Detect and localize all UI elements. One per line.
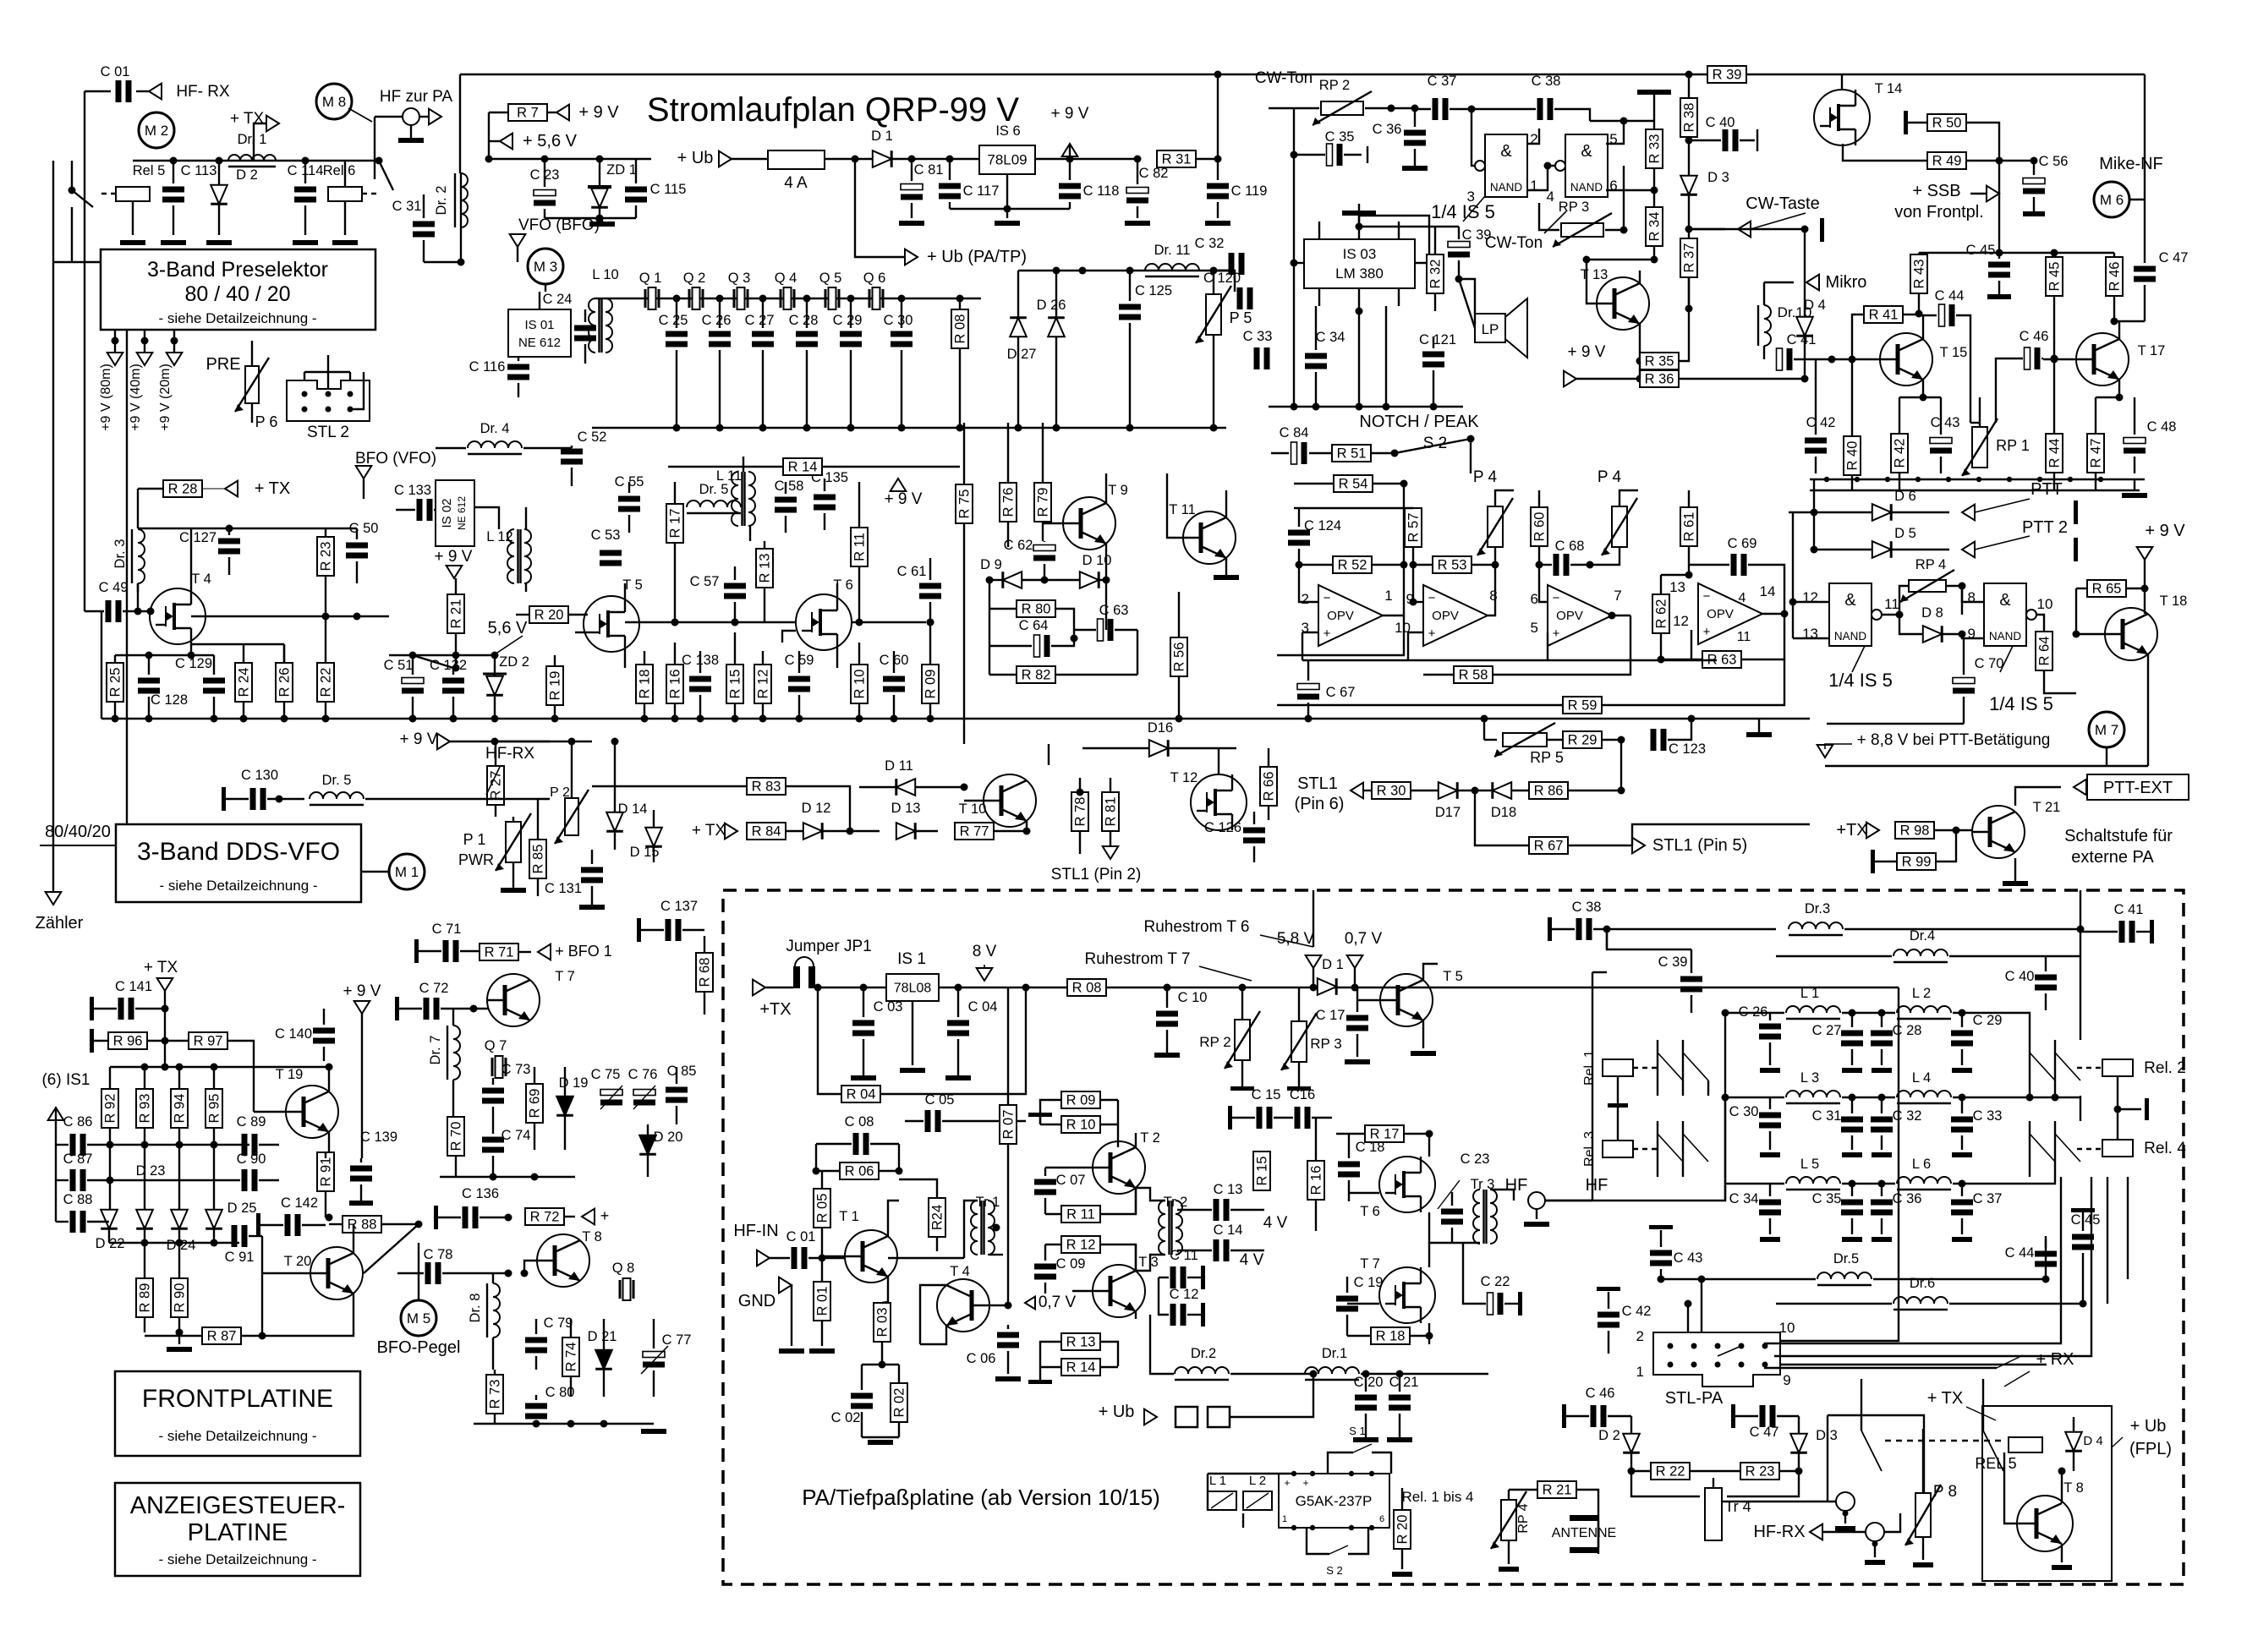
resistor R 02	[891, 1383, 907, 1422]
inductor Dr. 7	[453, 1026, 460, 1080]
resistor R 03	[874, 1303, 891, 1342]
ground rel2	[2145, 1098, 2149, 1120]
transistor T 9	[1063, 497, 1115, 550]
meter M 8	[316, 84, 352, 119]
svg-text:R 10: R 10	[852, 670, 868, 699]
svg-text:R 06: R 06	[845, 1164, 874, 1179]
resistor R 30	[1372, 782, 1411, 799]
resistor R 26	[276, 663, 293, 702]
svg-text:+ TX: + TX	[692, 822, 726, 840]
svg-text:C 20: C 20	[1354, 1375, 1384, 1390]
ic IS 1 78L08	[886, 974, 939, 1001]
transistor T 10	[984, 774, 1036, 827]
svg-text:C 47: C 47	[1750, 1425, 1779, 1440]
capacitor C 22	[1488, 1293, 1493, 1315]
svg-text:C 86: C 86	[63, 1114, 93, 1130]
capacitor C 113	[162, 187, 184, 193]
svg-text:6: 6	[1379, 1514, 1384, 1524]
resistor R 12 if	[754, 665, 771, 703]
capacitor C 57	[724, 583, 746, 589]
svg-text:C 03: C 03	[874, 999, 903, 1015]
svg-text:C 51: C 51	[384, 658, 414, 673]
svg-text:M 8: M 8	[322, 94, 346, 110]
svg-text:C 118: C 118	[1083, 183, 1120, 199]
capacitor C 67	[1297, 684, 1319, 690]
svg-text:C 117: C 117	[963, 183, 1000, 199]
svg-text:D 26: D 26	[1037, 298, 1066, 313]
svg-text:R 69: R 69	[528, 1089, 543, 1119]
svg-text:R 32: R 32	[1428, 260, 1444, 289]
resistor R 60	[1531, 507, 1548, 546]
svg-text:- siehe Detailzeichnung -: - siehe Detailzeichnung -	[158, 1428, 316, 1444]
capacitor C 46 mic	[2025, 347, 2031, 369]
svg-text:ZD 2: ZD 2	[499, 654, 529, 670]
svg-text:D 25: D 25	[227, 1201, 257, 1216]
transformer L 11	[732, 472, 738, 526]
svg-text:1/4 IS 5: 1/4 IS 5	[1989, 693, 2053, 714]
signal +9V r7	[547, 112, 556, 113]
transistor T 5 pa	[1380, 974, 1433, 1026]
capacitor C 115	[625, 187, 647, 193]
svg-text:R 16: R 16	[1309, 1166, 1324, 1195]
svg-text:R 14: R 14	[1066, 1360, 1096, 1376]
crystal Q 4	[780, 289, 782, 308]
svg-text:STL 2: STL 2	[307, 424, 349, 441]
svg-text:C 72: C 72	[419, 981, 449, 996]
relay Rel. 4	[2102, 1140, 2133, 1157]
svg-text:C 33: C 33	[1973, 1108, 2003, 1124]
svg-text:PLATINE: PLATINE	[188, 1519, 288, 1546]
capacitor C 38 lpf	[1576, 918, 1582, 940]
wire lpf feeds	[1592, 972, 1593, 1201]
svg-text:C 76: C 76	[628, 1067, 658, 1082]
transistor T 7 fp	[487, 974, 540, 1026]
svg-text:R 47: R 47	[2089, 439, 2104, 468]
svg-text:Dr.1: Dr.1	[1322, 1346, 1347, 1361]
ground t21	[2014, 858, 2016, 881]
svg-text:5,8 V: 5,8 V	[1277, 930, 1315, 948]
svg-text:Rel. 1: Rel. 1	[1582, 1050, 1597, 1086]
transformer Tr 3	[1473, 1190, 1480, 1244]
diode D 9	[1003, 572, 1022, 588]
wire to C31	[379, 161, 393, 190]
wire stlpa pin9 net	[1774, 1177, 2091, 1356]
svg-text:C 07: C 07	[1056, 1173, 1086, 1188]
svg-text:R 09: R 09	[1066, 1093, 1096, 1108]
wire lm380 out	[1359, 216, 1429, 263]
speaker LP	[1475, 314, 1505, 342]
capacitor C 18	[1338, 1162, 1360, 1168]
svg-text:T 5: T 5	[1443, 969, 1463, 984]
capacitor C 06	[997, 1332, 1019, 1338]
resistor R 01	[814, 1282, 830, 1321]
svg-text:R 59: R 59	[1568, 698, 1598, 714]
capacitor C 138	[689, 676, 711, 682]
resistor R 79	[1034, 483, 1051, 522]
svg-text:S 2: S 2	[1326, 1564, 1343, 1577]
svg-text:C 30: C 30	[884, 313, 913, 328]
capacitor C 32 lpf	[1871, 1117, 1893, 1123]
ground fp	[178, 1332, 180, 1344]
potentiometer P 5	[1206, 294, 1221, 335]
svg-text:C 32: C 32	[1893, 1108, 1922, 1124]
svg-text:RP 4: RP 4	[1915, 557, 1946, 572]
wire rel5 dashed link	[1885, 1440, 2006, 1441]
capacitor C 36 lpf	[1871, 1200, 1893, 1206]
inductor Dr.3 lpf	[1789, 922, 1843, 929]
wire mic bus	[1919, 252, 2114, 254]
resistor R 35	[1640, 353, 1679, 369]
crystal Q 6	[869, 289, 871, 308]
svg-text:Tr 2: Tr 2	[1164, 1195, 1188, 1210]
svg-text:C 81: C 81	[914, 162, 944, 178]
capacitor C 11	[1170, 1266, 1176, 1288]
signal PTT 2	[1962, 542, 1975, 558]
resistor R 54	[1334, 475, 1373, 492]
svg-text:+ 9 V: + 9 V	[400, 730, 438, 748]
svg-text:80/40/20: 80/40/20	[45, 823, 111, 841]
resistor R 93	[136, 1089, 153, 1128]
resistor R 81	[1102, 792, 1119, 831]
relay Rel. 2	[2102, 1059, 2133, 1076]
svg-text:RP 5: RP 5	[1530, 749, 1564, 766]
svg-text:R 01: R 01	[815, 1287, 830, 1316]
svg-text:D 1: D 1	[1322, 957, 1344, 972]
op-amp OPV3	[1548, 585, 1612, 646]
svg-text:C 29: C 29	[833, 313, 863, 328]
wire tx switch left	[1861, 1379, 1862, 1430]
svg-text:T 17: T 17	[2138, 343, 2166, 358]
svg-text:+ 9 V: + 9 V	[1051, 105, 1089, 123]
svg-text:OPV: OPV	[1327, 609, 1354, 623]
wire rx net	[1764, 1367, 1997, 1369]
transistor T 1	[845, 1230, 897, 1283]
svg-text:Q 4: Q 4	[775, 271, 797, 286]
svg-text:P 1: P 1	[463, 831, 486, 848]
transistor T 15	[1880, 333, 1932, 386]
svg-text:R 45: R 45	[2047, 262, 2063, 292]
svg-text:+ RX: + RX	[2036, 1350, 2074, 1369]
ic IS 6 78L09	[979, 145, 1035, 174]
svg-text:C 127: C 127	[179, 530, 216, 545]
svg-text:1/4 IS 5: 1/4 IS 5	[1828, 670, 1893, 691]
svg-text:C 116: C 116	[469, 359, 506, 375]
svg-text:NAND: NAND	[1490, 181, 1523, 194]
capacitor C 34 lpf	[1759, 1200, 1781, 1206]
transistor T 4 mosfet	[150, 588, 206, 644]
capacitor C 44 lpf	[2035, 1251, 2057, 1257]
resistor R 31	[1157, 150, 1196, 167]
svg-text:C 13: C 13	[1214, 1182, 1243, 1197]
diode D 11	[896, 779, 915, 796]
svg-text:Dr.10: Dr.10	[1778, 304, 1812, 320]
svg-text:+ 9 V: + 9 V	[885, 490, 923, 508]
svg-text:R 78: R 78	[1073, 797, 1088, 827]
svg-text:M 5: M 5	[407, 1310, 430, 1327]
svg-text:NAND: NAND	[1834, 630, 1867, 643]
svg-text:Dr. 4: Dr. 4	[480, 421, 510, 436]
svg-text:C 01: C 01	[786, 1229, 816, 1244]
svg-text:C 22: C 22	[1481, 1274, 1510, 1289]
svg-text:C 14: C 14	[1214, 1223, 1243, 1238]
svg-text:T 7: T 7	[555, 969, 575, 984]
svg-text:R 71: R 71	[485, 945, 514, 960]
potentiometer P 4 b	[1612, 506, 1627, 547]
wire fp node	[110, 1066, 329, 1068]
svg-text:Jumper JP1: Jumper JP1	[786, 938, 871, 955]
svg-text:LP: LP	[1482, 321, 1499, 337]
ic IS 03 LM 380	[1304, 239, 1415, 288]
inductor L 6	[1897, 1177, 1951, 1184]
svg-text:R 56: R 56	[1172, 643, 1187, 672]
inductor L 4	[1897, 1091, 1951, 1097]
svg-text:L 10: L 10	[592, 267, 619, 282]
svg-text:R 22: R 22	[1656, 1464, 1685, 1480]
connector STL 2	[287, 380, 370, 421]
capacitor C 51	[402, 678, 424, 684]
svg-text:C 40: C 40	[1706, 115, 1735, 130]
signal hf-in arrow	[757, 1250, 770, 1266]
signal + Ub (PA/TP)	[855, 159, 905, 257]
svg-text:R 62: R 62	[1654, 599, 1669, 629]
svg-text:78L08: 78L08	[894, 982, 932, 996]
svg-text:C 113: C 113	[181, 163, 217, 178]
svg-text:M 1: M 1	[395, 864, 419, 880]
svg-text:C 142: C 142	[281, 1195, 318, 1211]
transformer L 10	[589, 298, 595, 353]
transistor T 17	[2076, 333, 2129, 386]
svg-text:+ 8,8 V bei PTT-Betätigung: + 8,8 V bei PTT-Betätigung	[1857, 731, 2051, 749]
svg-text:D16: D16	[1148, 720, 1173, 736]
svg-text:C 64: C 64	[1019, 618, 1049, 633]
svg-text:HF: HF	[1505, 1176, 1528, 1195]
svg-text:Mikro: Mikro	[1826, 273, 1867, 292]
svg-text:6: 6	[1531, 591, 1538, 607]
wire r31 up	[1217, 74, 1219, 159]
signal + BFO 2	[582, 1209, 595, 1225]
svg-text:5: 5	[1531, 620, 1538, 636]
svg-text:R 77: R 77	[960, 824, 989, 840]
capacitor C 42 mic	[1805, 438, 1827, 444]
resistor R 21 pa	[1537, 1481, 1576, 1498]
wire t8 bottom	[474, 1423, 654, 1425]
svg-text:Rel 5: Rel 5	[133, 163, 166, 178]
crystal Q 5	[825, 289, 827, 308]
capacitor C 09	[1034, 1264, 1056, 1270]
svg-text:C 37: C 37	[1428, 74, 1457, 89]
svg-text:C 39: C 39	[1462, 227, 1492, 243]
diode D 22	[101, 1210, 118, 1228]
capacitor C 31	[413, 222, 435, 227]
diode D 19	[556, 1097, 573, 1115]
svg-text:D 23: D 23	[136, 1163, 166, 1179]
svg-text:+ SSB: + SSB	[1912, 182, 1960, 200]
resistor R 15 if	[726, 665, 743, 703]
svg-text:C 34: C 34	[1729, 1191, 1759, 1206]
wire ptt rail	[1810, 479, 2145, 480]
resistor R 24 t4	[235, 663, 252, 702]
wire lpf row2	[1725, 1097, 1784, 1098]
capacitor C 31	[1841, 1117, 1863, 1123]
svg-text:Dr. 3: Dr. 3	[112, 539, 128, 569]
wire dds vert	[126, 330, 128, 824]
svg-text:+ Ub: + Ub	[677, 149, 714, 167]
capacitor C 05	[925, 1110, 931, 1132]
wire lpf out right	[2080, 929, 2081, 1040]
svg-text:GND: GND	[738, 1292, 775, 1310]
capacitor C 129	[203, 678, 225, 684]
svg-text:R 31: R 31	[1162, 152, 1192, 167]
wire fp bottom	[109, 1242, 239, 1244]
capacitor C 44 mic	[1939, 304, 1945, 326]
resistor R 71	[480, 944, 518, 960]
svg-text:C 26: C 26	[702, 313, 732, 328]
svg-text:R 58: R 58	[1459, 668, 1488, 683]
capacitor C 119	[1207, 183, 1229, 189]
inductor Dr.10	[1764, 305, 1771, 346]
svg-text:R 41: R 41	[1869, 308, 1899, 323]
svg-text:C 79: C 79	[544, 1316, 573, 1331]
capacitor C 71	[443, 940, 449, 962]
svg-text:C 31: C 31	[392, 199, 422, 214]
svg-text:R 7: R 7	[517, 106, 539, 121]
resistor R 33	[1646, 129, 1663, 168]
inductor L 3	[1786, 1091, 1840, 1097]
svg-text:Dr. 7: Dr. 7	[428, 1036, 443, 1065]
svg-text:R 67: R 67	[1534, 839, 1564, 854]
svg-text:IS 1: IS 1	[897, 950, 926, 968]
wire hf row to relays	[1545, 1013, 1725, 1201]
diode D 8	[1923, 626, 1942, 643]
transformer Tr 1	[971, 1201, 978, 1255]
svg-text:D 1: D 1	[871, 129, 893, 144]
ground ptt	[2134, 479, 2135, 490]
potentiometer P 2	[565, 798, 578, 835]
wire dds left	[52, 892, 54, 898]
svg-text:LM 380: LM 380	[1335, 265, 1384, 282]
transistor T 14 mosfet	[1814, 90, 1870, 145]
svg-text:C 69: C 69	[1728, 536, 1757, 551]
capacitor C 41 mic	[1777, 348, 1783, 370]
svg-text:C 136: C 136	[462, 1186, 499, 1201]
transformer L 12	[507, 529, 514, 583]
inductor L 2 relay	[1243, 1491, 1272, 1510]
svg-text:C 70: C 70	[1975, 656, 2004, 671]
svg-text:Zähler: Zähler	[36, 914, 84, 933]
svg-text:C 32: C 32	[1195, 236, 1225, 251]
svg-text:R 65: R 65	[2092, 582, 2122, 597]
resistor R 58	[1454, 666, 1493, 683]
svg-text:C 125: C 125	[1135, 283, 1172, 298]
capacitor C 50	[346, 543, 368, 549]
svg-text:R 96: R 96	[113, 1034, 143, 1049]
svg-text:D 6: D 6	[1894, 489, 1916, 504]
svg-text:T 15: T 15	[1940, 345, 1968, 360]
resistor R 32	[1427, 254, 1444, 293]
svg-text:−: −	[1324, 591, 1331, 605]
svg-text:T 20: T 20	[284, 1254, 312, 1269]
svg-text:C 137: C 137	[660, 899, 698, 914]
capacitor C 61	[919, 583, 941, 589]
wire preselector outputs	[114, 330, 116, 353]
inductor Dr. 3	[138, 529, 145, 583]
diode D 15	[645, 828, 662, 846]
capacitor C 68	[1554, 554, 1559, 576]
resistor R 87	[202, 1327, 241, 1344]
potentiometer P 1	[506, 822, 521, 862]
svg-text:R 88: R 88	[348, 1217, 377, 1233]
resistor R 16 if	[666, 665, 683, 703]
capacitor C 76 trim	[633, 1090, 655, 1096]
resistor R 86	[1529, 782, 1568, 799]
svg-text:C 31: C 31	[1812, 1108, 1842, 1124]
meter M 3	[528, 249, 563, 284]
svg-text:IS 02: IS 02	[440, 498, 454, 528]
wire t4 top	[137, 489, 139, 528]
potentiometer RP 1 mic	[1972, 427, 1987, 468]
wire 5.6v node	[389, 654, 495, 656]
svg-text:C 27: C 27	[745, 313, 775, 328]
capacitor C 17	[1346, 1015, 1368, 1021]
capacitor C 47 mic	[2134, 266, 2156, 272]
svg-text:C 91: C 91	[225, 1250, 255, 1265]
svg-text:C 41: C 41	[1787, 332, 1817, 347]
resistor R 11 pa	[1061, 1206, 1100, 1223]
svg-text:STL1 (Pin 5): STL1 (Pin 5)	[1652, 836, 1747, 855]
capacitor C 34 tone	[1305, 353, 1327, 359]
svg-text:C 128: C 128	[151, 692, 188, 708]
wire node row	[133, 160, 345, 161]
svg-text:14: 14	[1760, 583, 1776, 599]
signal +9V 20m	[167, 353, 183, 365]
svg-text:R 07: R 07	[1001, 1110, 1017, 1140]
svg-text:R 43: R 43	[1912, 260, 1927, 289]
capacitor C 02	[851, 1393, 873, 1399]
zener ZD 1	[591, 189, 608, 207]
inductor L 2	[1897, 1006, 1951, 1013]
svg-text:&: &	[1500, 142, 1512, 161]
relay contacts right	[2029, 1040, 2031, 1096]
resistor R 29	[1563, 731, 1602, 748]
capacitor C 33 lpf	[1951, 1117, 1973, 1123]
svg-text:+TX: +TX	[1836, 821, 1867, 840]
capacitor C 26	[709, 331, 731, 337]
capacitor C 23 pa	[1441, 1209, 1463, 1215]
resistor R 08	[951, 309, 968, 348]
diode D 6	[1872, 504, 1891, 521]
svg-text:+: +	[1428, 626, 1436, 641]
svg-text:HF: HF	[1586, 1176, 1609, 1195]
svg-text:ANZEIGESTEUER-: ANZEIGESTEUER-	[130, 1492, 346, 1519]
capacitor C 37 tone	[1433, 98, 1439, 120]
capacitor C 28	[796, 331, 818, 337]
svg-text:11: 11	[1737, 630, 1751, 644]
resistor R 94	[171, 1089, 188, 1128]
resistor R 25	[107, 663, 123, 702]
svg-text:10: 10	[2037, 596, 2053, 612]
resistor R 59	[1563, 697, 1602, 714]
resistor R 40	[1844, 436, 1861, 475]
resistor R 16 pa	[1307, 1161, 1324, 1200]
resistor R 10 if	[851, 665, 868, 703]
svg-text:Q 1: Q 1	[639, 271, 662, 286]
svg-text:C 10: C 10	[1178, 990, 1208, 1005]
inductor Dr. 5 low	[310, 792, 364, 799]
capacitor C 52	[561, 449, 583, 455]
inductor Dr. 5 bfo	[687, 501, 741, 507]
diode D 14	[606, 812, 623, 831]
svg-text:C 11: C 11	[1170, 1248, 1198, 1263]
